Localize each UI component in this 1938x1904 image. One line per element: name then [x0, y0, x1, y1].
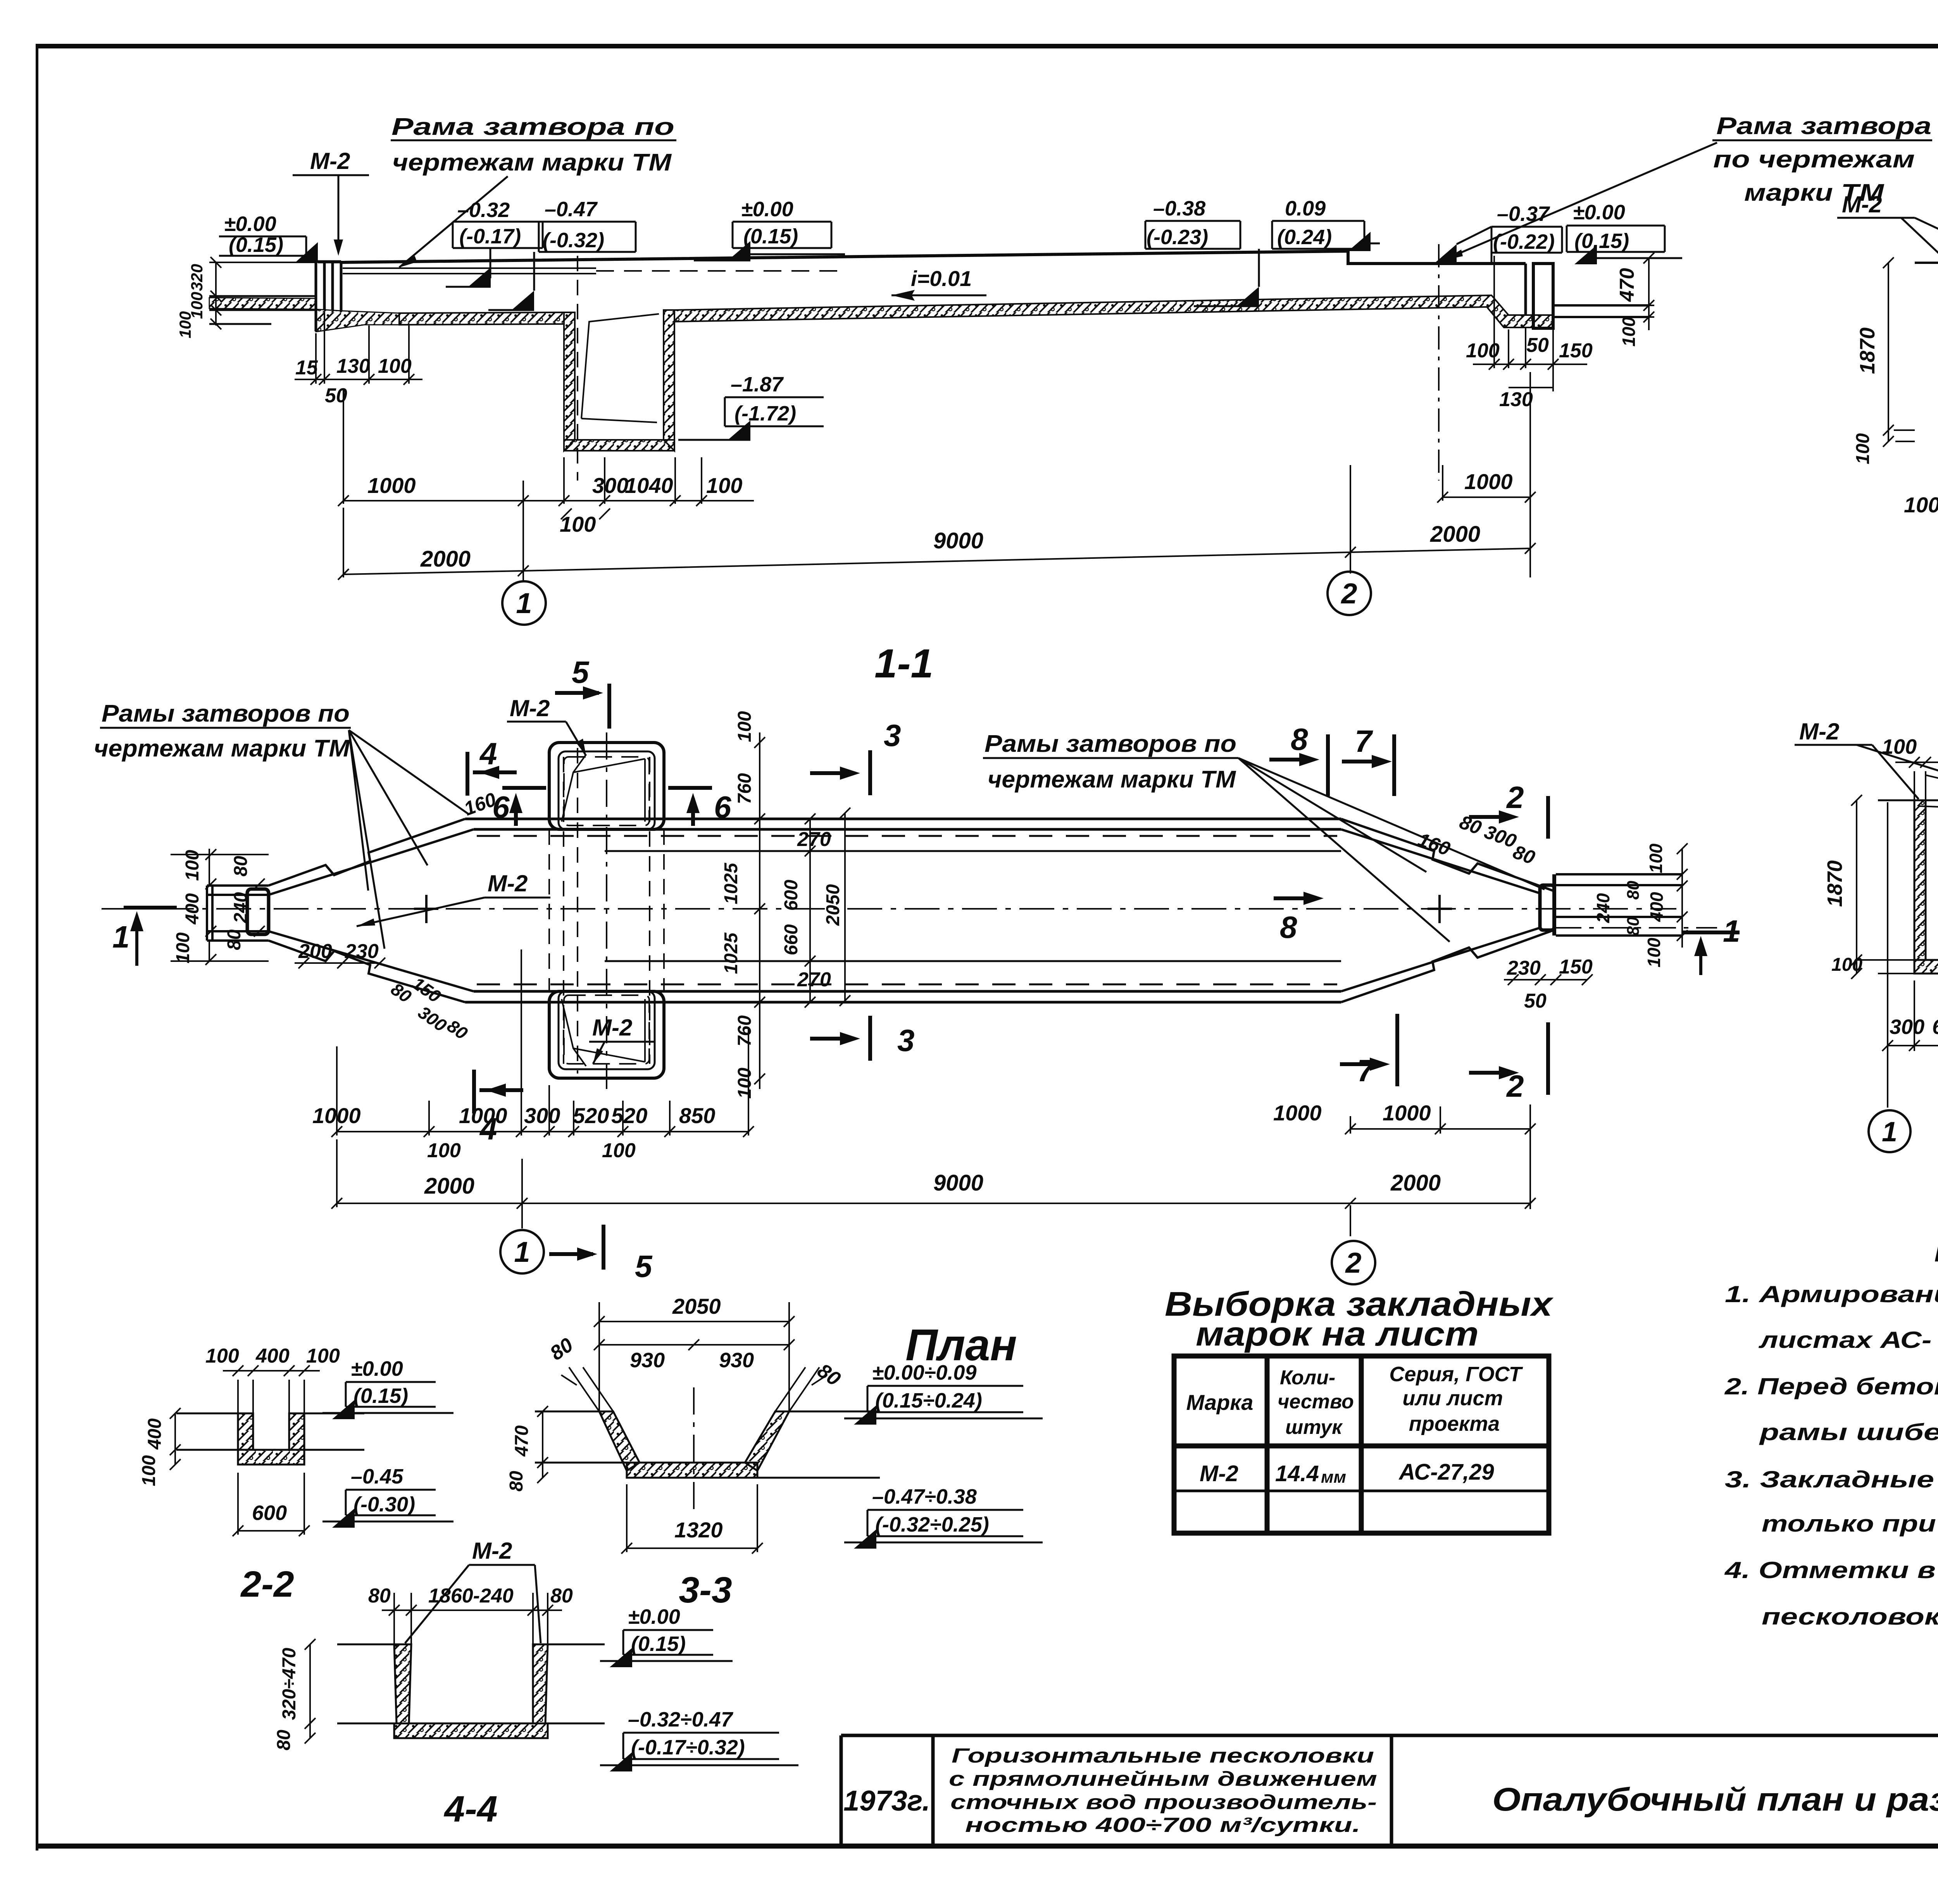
gate square center dashdot: [606, 732, 607, 1089]
svg-text:Рама затвора: Рама затвора: [1716, 113, 1931, 140]
svg-text:80: 80: [1624, 917, 1643, 936]
inlet gate frame box: [247, 889, 269, 934]
svg-text:850: 850: [679, 1103, 715, 1128]
corner 80 stubs: [561, 1367, 827, 1411]
plan axis dim row 2000 9000 2000: [337, 1104, 1530, 1236]
svg-text:проекта: проекта: [1409, 1412, 1500, 1435]
pit bottom slab: [564, 440, 674, 451]
svg-text:1: 1: [1882, 1117, 1897, 1148]
left approach concrete band: [209, 298, 316, 309]
svg-text:только при варианте песколо: только при варианте песколовок со здание…: [1762, 1511, 1938, 1537]
plan axis circle 2: [1332, 1241, 1375, 1284]
level lines: [535, 1411, 880, 1478]
right end sub dim 1000: [1437, 465, 1536, 503]
svg-text:песколовок с решеткой в зд: песколовок с решеткой в здании.: [1762, 1604, 1938, 1630]
section mark 1 right: [1681, 930, 1740, 934]
dim 930 930: [594, 1339, 795, 1350]
pit right wall: [664, 310, 674, 451]
left slant wall hatched: [599, 1411, 640, 1471]
svg-text:7: 7: [1357, 1053, 1376, 1088]
svg-text:1000: 1000: [1383, 1101, 1431, 1125]
svg-text:400: 400: [255, 1345, 290, 1367]
svg-text:1860-240: 1860-240: [428, 1585, 514, 1607]
svg-text:7: 7: [1355, 724, 1373, 758]
svg-text:230: 230: [345, 940, 379, 963]
svg-text:80: 80: [274, 1730, 294, 1751]
svg-text:±0.00÷0.09: ±0.00÷0.09: [872, 1361, 976, 1384]
right wall hatched: [533, 1644, 548, 1723]
svg-text:2000: 2000: [424, 1173, 474, 1199]
svg-text:марок на лист: марок на лист: [1196, 1315, 1479, 1353]
inner leader lines: [1919, 804, 1938, 822]
outgoing channel lines: [1553, 305, 1649, 317]
left wall foot hatch: [316, 309, 399, 332]
svg-text:±0.00: ±0.00: [628, 1605, 680, 1628]
svg-text:(0.15): (0.15): [353, 1384, 408, 1408]
plan centerline: [102, 908, 1676, 910]
svg-text:320÷470: 320÷470: [279, 1647, 300, 1720]
svg-text:760: 760: [735, 773, 755, 804]
outlet gate frame box: [1540, 885, 1554, 930]
section mark 1 left: [124, 906, 177, 910]
svg-text:80: 80: [224, 929, 245, 950]
svg-text:100: 100: [205, 1345, 239, 1367]
svg-text:300: 300: [1890, 1015, 1924, 1039]
svg-text:930: 930: [719, 1349, 754, 1372]
svg-text:чертежам марки ТМ: чертежам марки ТМ: [988, 766, 1236, 793]
dims 80 1860-240 80: [382, 1593, 562, 1644]
section mark 6 right: [668, 788, 712, 826]
svg-text:930: 930: [630, 1349, 665, 1372]
svg-text:(-0.23): (-0.23): [1147, 226, 1208, 249]
svg-text:100: 100: [1644, 937, 1664, 967]
svg-text:1: 1: [516, 587, 532, 619]
level lines: [337, 1644, 605, 1723]
svg-text:М-2: М-2: [510, 695, 550, 721]
svg-text:(0.15): (0.15): [229, 233, 283, 257]
svg-text:i=0.01: i=0.01: [911, 266, 972, 291]
svg-text:320: 320: [188, 264, 206, 291]
svg-text:1000: 1000: [367, 473, 416, 498]
svg-text:130: 130: [1499, 388, 1533, 411]
svg-text:50: 50: [1526, 334, 1549, 357]
section mark 8 mid: [1274, 896, 1317, 900]
svg-text:760: 760: [735, 1015, 755, 1046]
svg-text:мм: мм: [1321, 1468, 1346, 1487]
svg-text:100: 100: [1466, 339, 1500, 362]
svg-text:2: 2: [1340, 577, 1357, 610]
svg-text:2050: 2050: [672, 1294, 721, 1318]
svg-text:400: 400: [182, 893, 203, 925]
wall foot dims 15/130/100/50: [295, 312, 422, 384]
svg-text:(0.15): (0.15): [631, 1632, 686, 1656]
svg-text:Серия, ГОСТ: Серия, ГОСТ: [1389, 1363, 1523, 1386]
axis line to circle 1: [1887, 802, 1888, 1108]
svg-text:3-3: 3-3: [679, 1570, 732, 1611]
svg-text:±0.00: ±0.00: [1573, 201, 1625, 224]
right slant wall hatched: [745, 1411, 789, 1471]
svg-text:–0.32÷0.47: –0.32÷0.47: [628, 1708, 734, 1731]
ground level line: [1878, 800, 1938, 801]
svg-text:–0.47÷0.38: –0.47÷0.38: [872, 1485, 977, 1508]
svg-text:80: 80: [506, 1471, 527, 1492]
right converge upper wall: [1341, 819, 1553, 893]
svg-text:100: 100: [1853, 433, 1873, 464]
svg-text:1870: 1870: [1823, 860, 1847, 907]
svg-text:2-2: 2-2: [240, 1564, 294, 1605]
svg-text:100: 100: [427, 1139, 461, 1162]
right converge lower wall: [1341, 928, 1553, 1002]
svg-text:листах АС- 14 , 15 , 16 .: листах АС- 14 , 15 , 16 .: [1758, 1327, 1938, 1353]
border bottom: [36, 1844, 1938, 1849]
svg-text:14.4: 14.4: [1275, 1461, 1319, 1486]
bottom slab hatched: [394, 1723, 548, 1738]
svg-text:ностью 400÷700 м³/сутки.: ностью 400÷700 м³/сутки.: [965, 1814, 1360, 1837]
dims 400 100 rotated: [170, 1408, 181, 1470]
svg-text:6: 6: [714, 790, 731, 824]
svg-text:1000: 1000: [1273, 1101, 1322, 1125]
bottom slab hatched: [238, 1450, 304, 1465]
plan axis circle 1: [500, 1230, 544, 1273]
svg-text:чертежам марки ТМ: чертежам марки ТМ: [94, 735, 350, 762]
channel upper wall lines: [465, 819, 1341, 829]
svg-text:чертежам марки ТМ: чертежам марки ТМ: [392, 149, 672, 176]
inlet channel walls: [207, 886, 269, 941]
svg-text:2000: 2000: [1390, 1170, 1441, 1196]
svg-text:150: 150: [1559, 339, 1593, 362]
gate frame band under slab: [343, 268, 596, 274]
svg-text:1040: 1040: [625, 473, 673, 498]
gate square edge dashed verticals: [549, 748, 664, 1073]
svg-text:9000: 9000: [933, 1170, 983, 1196]
svg-text:М-2: М-2: [472, 1538, 512, 1564]
svg-text:1000: 1000: [312, 1103, 361, 1128]
svg-text:100: 100: [1831, 955, 1862, 975]
pit left wall: [564, 312, 575, 451]
svg-text:8: 8: [1280, 910, 1297, 944]
axis circle 1: [502, 581, 546, 625]
dim 1320: [621, 1484, 763, 1554]
svg-text:240: 240: [1593, 893, 1613, 923]
svg-text:чество: чество: [1278, 1391, 1354, 1413]
svg-text:100: 100: [602, 1139, 636, 1162]
section mark 6 left: [502, 788, 546, 826]
svg-text:±0.00: ±0.00: [224, 212, 276, 236]
svg-text:(-1.72): (-1.72): [735, 402, 796, 425]
svg-text:Рамы затворов по: Рамы затворов по: [985, 731, 1236, 757]
svg-text:2000: 2000: [1430, 522, 1480, 547]
dims 100 1040 100: [1895, 757, 1938, 800]
svg-text:1000: 1000: [459, 1103, 507, 1128]
svg-text:4. Отметки в скобках относя: 4. Отметки в скобках относятся к вариант…: [1724, 1557, 1938, 1583]
svg-text:130: 130: [336, 355, 370, 377]
svg-text:150: 150: [1559, 956, 1593, 978]
svg-text:(-0.22): (-0.22): [1493, 230, 1555, 253]
svg-text:рамы шиберов по чертежам м: рамы шиберов по чертежам марки ТМ .: [1759, 1419, 1938, 1445]
centerline cross left: [414, 895, 438, 923]
svg-text:М-2: М-2: [1200, 1461, 1238, 1486]
svg-text:620: 620: [1932, 1015, 1938, 1039]
right end wall: [1533, 264, 1553, 328]
svg-text:1025: 1025: [721, 932, 741, 974]
left wall hatched: [238, 1413, 253, 1450]
svg-text:1. Армирование песколовки ра: 1. Армирование песколовки разработано на: [1725, 1281, 1938, 1307]
svg-text:1973г.: 1973г.: [843, 1785, 930, 1817]
svg-text:(-0.17÷0.32): (-0.17÷0.32): [631, 1736, 745, 1759]
svg-text:2: 2: [1345, 1247, 1361, 1279]
svg-text:1: 1: [112, 920, 130, 954]
svg-text:3: 3: [884, 718, 901, 753]
left wall hatched: [394, 1644, 411, 1723]
svg-text:520: 520: [573, 1103, 609, 1128]
border top: [36, 44, 1938, 48]
dim 2050: [594, 1302, 795, 1411]
svg-text:100: 100: [306, 1345, 340, 1367]
plan bottom dim row 1000 1000 300 520 520 850: [337, 949, 748, 1136]
svg-text:9000: 9000: [933, 528, 983, 553]
svg-text:2050: 2050: [823, 884, 843, 926]
svg-text:Рама затвора по: Рама затвора по: [391, 114, 674, 140]
svg-text:(0.15÷0.24): (0.15÷0.24): [875, 1389, 982, 1412]
svg-text:1000: 1000: [1464, 469, 1513, 494]
svg-text:(0.15): (0.15): [743, 225, 798, 248]
svg-text:(-0.17): (-0.17): [459, 225, 521, 248]
svg-text:200: 200: [298, 940, 332, 963]
svg-text:–0.38: –0.38: [1153, 197, 1205, 220]
axis circle 1: [1869, 1110, 1910, 1152]
svg-text:2. Перед бетонированием в о: 2. Перед бетонированием в опалубку залож…: [1724, 1373, 1938, 1399]
centerline cross right: [1428, 895, 1452, 923]
outlet end cap: [1552, 874, 1556, 936]
svg-text:1870: 1870: [1856, 327, 1879, 374]
title block: [841, 1735, 1938, 1883]
svg-text:230: 230: [1507, 957, 1541, 979]
svg-text:–0.37: –0.37: [1497, 202, 1550, 226]
border left: [36, 44, 38, 1851]
svg-text:М-2: М-2: [1799, 719, 1839, 744]
svg-text:270: 270: [797, 968, 831, 991]
dim row 1000 / 300 1040 100: [343, 389, 754, 504]
svg-text:8: 8: [1291, 722, 1308, 756]
svg-text:3: 3: [897, 1023, 915, 1058]
svg-text:(0.24): (0.24): [1277, 226, 1332, 249]
svg-text:50: 50: [1524, 990, 1547, 1012]
svg-text:600: 600: [252, 1501, 287, 1525]
pit inner leader lines: [581, 314, 659, 422]
svg-text:80: 80: [231, 856, 251, 877]
svg-text:80: 80: [368, 1585, 391, 1607]
title block outline: [841, 1735, 1938, 1846]
svg-text:1025: 1025: [721, 862, 741, 904]
vertical dim 1870 / 100: [1883, 257, 1915, 447]
svg-text:600: 600: [781, 880, 802, 911]
svg-text:1-1: 1-1: [874, 641, 933, 686]
outlet axis dashdot: [1554, 927, 1717, 929]
svg-text:АС-27,29: АС-27,29: [1398, 1459, 1494, 1485]
svg-text:М-2: М-2: [310, 148, 350, 174]
svg-text:Примечания:: Примечания:: [1934, 1228, 1938, 1270]
svg-text:Рамы затворов по: Рамы затворов по: [102, 700, 350, 727]
channel lower floor break: [605, 960, 1341, 962]
svg-text:с прямолинейным движением: с прямолинейным движением: [949, 1768, 1377, 1790]
embedded parts table: [1165, 1285, 1554, 1533]
svg-text:100: 100: [735, 1068, 755, 1099]
dims 100 400 100: [223, 1365, 320, 1413]
svg-text:100: 100: [706, 473, 742, 498]
svg-text:400: 400: [145, 1418, 165, 1450]
svg-text:100: 100: [176, 311, 194, 338]
dim 1870 / 100: [1851, 795, 1914, 979]
svg-text:Коли-: Коли-: [1280, 1366, 1335, 1389]
svg-text:(-0.30): (-0.30): [353, 1493, 415, 1516]
svg-text:470: 470: [512, 1425, 532, 1457]
svg-text:М-2: М-2: [592, 1015, 632, 1041]
axis dim row 2000 9000 2000: [343, 372, 1530, 581]
top slab line: [341, 251, 1526, 264]
outlet channel lines: [1556, 874, 1682, 936]
svg-text:3. Закладные марки М-2 уста: 3. Закладные марки М-2 устанавливаются: [1725, 1466, 1938, 1492]
svg-text:100: 100: [378, 355, 412, 377]
svg-text:1: 1: [514, 1236, 530, 1268]
bottom slab hatched: [627, 1463, 757, 1478]
svg-text:100: 100: [173, 932, 193, 963]
bottom slab hatched: [1914, 960, 1938, 974]
svg-text:0.09: 0.09: [1285, 197, 1326, 220]
svg-text:100: 100: [1882, 735, 1917, 758]
dims 470 80: [537, 1406, 548, 1483]
svg-text:М-2: М-2: [1842, 191, 1882, 217]
right end bottom dims 100 50 150 130: [1473, 256, 1587, 391]
svg-text:(0.15): (0.15): [1574, 229, 1629, 253]
svg-text:80: 80: [1624, 880, 1643, 899]
svg-text:–0.47: –0.47: [545, 198, 598, 221]
svg-text:М-2: М-2: [488, 870, 528, 896]
left gate slot dashed line: [577, 256, 578, 481]
right wall inner lines: [1526, 264, 1533, 315]
svg-text:2: 2: [1506, 780, 1524, 815]
svg-text:300: 300: [592, 473, 628, 498]
svg-text:1320: 1320: [674, 1518, 723, 1542]
center dashdot: [693, 1387, 695, 1511]
left end wall: [316, 262, 341, 331]
svg-text:100: 100: [1904, 493, 1938, 517]
svg-text:4: 4: [479, 736, 497, 771]
axis circle 2: [1328, 572, 1371, 615]
svg-text:100: 100: [1646, 843, 1666, 873]
svg-text:или лист: или лист: [1402, 1387, 1503, 1410]
svg-text:Опалубочный план и разрезы.: Опалубочный план и разрезы.: [1492, 1781, 1938, 1818]
svg-text:(-0.32): (-0.32): [543, 229, 604, 252]
upper gate chamber square: [549, 743, 664, 829]
svg-text:штук: штук: [1285, 1416, 1343, 1439]
right end vertical dims 470/100: [1581, 253, 1654, 330]
right wall hatched: [289, 1413, 304, 1450]
channel lower wall lines: [465, 991, 1341, 1002]
svg-text:470: 470: [1616, 268, 1638, 302]
channel upper floor break: [605, 850, 1341, 852]
dims 300 620 620: [1882, 980, 1938, 1051]
svg-text:520: 520: [611, 1103, 647, 1128]
svg-text:(-0.32÷0.25): (-0.32÷0.25): [875, 1513, 989, 1536]
svg-text:2000: 2000: [420, 546, 471, 572]
funnel upper wall: [269, 819, 474, 895]
dims 320÷470 80 rotated: [305, 1639, 316, 1744]
svg-text:100: 100: [139, 1455, 159, 1486]
svg-text:Горизонтальные песколовки: Горизонтальные песколовки: [952, 1744, 1374, 1767]
svg-text:–1.87: –1.87: [731, 373, 784, 396]
svg-text:100: 100: [735, 711, 755, 742]
svg-text:660: 660: [781, 924, 802, 955]
top edge lines: [1915, 262, 1938, 264]
floor concrete band left of pit: [399, 312, 564, 325]
svg-text:80: 80: [550, 1585, 573, 1607]
table grid: [1174, 1356, 1549, 1533]
svg-text:5: 5: [572, 655, 590, 689]
svg-text:5: 5: [635, 1249, 653, 1284]
floor concrete band right of pit: [674, 295, 1553, 327]
svg-text:4-4: 4-4: [443, 1789, 497, 1830]
svg-text:Марка: Марка: [1186, 1390, 1253, 1415]
lower gate chamber square: [549, 991, 664, 1078]
plan sub dim 1000 1000 right: [1350, 1106, 1530, 1134]
svg-text:–0.32: –0.32: [457, 198, 510, 222]
svg-text:100: 100: [1619, 317, 1639, 346]
svg-text:±0.00: ±0.00: [741, 198, 793, 221]
notes block: [1724, 1228, 1938, 1630]
svg-text:240: 240: [231, 892, 251, 924]
dim 600: [233, 1473, 310, 1536]
svg-text:1: 1: [1723, 914, 1740, 948]
svg-text:15: 15: [295, 357, 318, 379]
svg-text:по чертежам: по чертежам: [1713, 146, 1915, 173]
left approach channel lines: [209, 296, 316, 324]
level lines: [176, 1413, 364, 1450]
svg-text:–0.45: –0.45: [351, 1465, 403, 1488]
funnel lower wall: [269, 931, 474, 1002]
svg-text:300: 300: [524, 1103, 560, 1128]
svg-text:сточных вод производитель-: сточных вод производитель-: [950, 1791, 1377, 1814]
right gate slot dash-dot: [1438, 244, 1440, 481]
svg-text:400: 400: [1647, 892, 1667, 922]
left vertical dims 320/100/100: [209, 262, 316, 326]
left wall hatched: [1914, 800, 1926, 960]
svg-text:±0.00: ±0.00: [351, 1357, 403, 1380]
